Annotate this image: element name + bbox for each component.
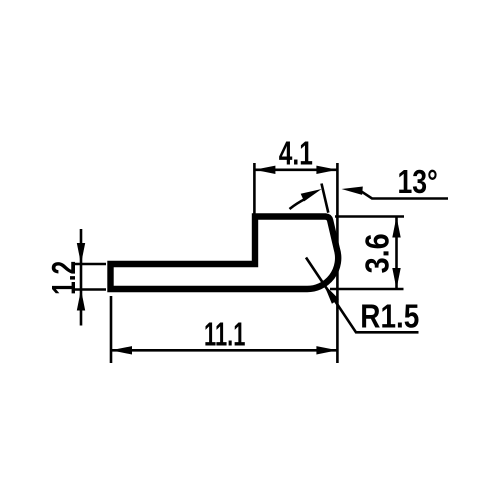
dim 1.2 extension line top bbox=[72, 263, 106, 266]
dim 11.1 arrow right bbox=[316, 346, 337, 354]
dim 13 degree left arc leader bbox=[290, 199, 307, 210]
svg-text:4.1: 4.1 bbox=[279, 135, 313, 172]
dim 1.2 dimension line bbox=[80, 229, 83, 326]
dim 3.6 arrow top bbox=[392, 217, 400, 238]
svg-text:R1.5: R1.5 bbox=[360, 298, 419, 335]
svg-text:1.2: 1.2 bbox=[45, 261, 82, 295]
dim 11.1 extension line left bbox=[110, 296, 113, 363]
dim R1.5 leader line bbox=[306, 258, 419, 333]
dim 3.6 extension line bottom bbox=[330, 288, 404, 291]
dim R1.5 arrow bbox=[324, 284, 339, 304]
dim 4.1 dimension line bbox=[254, 169, 337, 172]
dim 3.6 extension line top bbox=[335, 215, 404, 218]
dim 1.2 arrow top bbox=[77, 243, 85, 264]
dim 4.1 extension line left bbox=[253, 163, 256, 214]
profile outline bbox=[111, 217, 339, 290]
dim 13 degree edge extension line bbox=[322, 184, 329, 213]
dim 4.1 arrow right bbox=[316, 166, 337, 174]
svg-text:11.1: 11.1 bbox=[204, 315, 245, 352]
svg-text:13°: 13° bbox=[398, 163, 438, 200]
dim 3.6 arrow bottom bbox=[392, 268, 400, 289]
dim 4.1 / 11.1 shared extension line right bbox=[336, 163, 339, 363]
dim 11.1 dimension line bbox=[111, 349, 337, 352]
dim 1.2 arrow bottom bbox=[77, 290, 85, 311]
dim 13 degree leader to text bbox=[360, 191, 448, 199]
dim 11.1 arrow left bbox=[111, 346, 132, 354]
dim 4.1 arrow left bbox=[254, 166, 275, 174]
dim 13 degree left arrow bbox=[301, 189, 322, 201]
dim 1.2 extension line bottom bbox=[72, 288, 106, 291]
svg-text:3.6: 3.6 bbox=[359, 233, 396, 273]
dim 13 degree right arrow bbox=[342, 187, 363, 195]
dim 3.6 dimension line bbox=[395, 217, 398, 290]
